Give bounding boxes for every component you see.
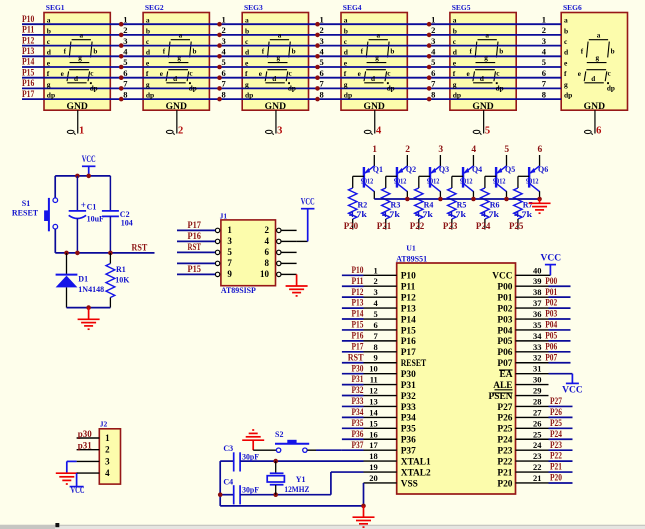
svg-text:e: e [358,70,361,78]
svg-text:P32: P32 [352,385,364,395]
svg-text:24: 24 [533,440,542,450]
svg-text:2: 2 [123,25,127,35]
svg-text:8: 8 [542,89,546,99]
svg-text:7: 7 [542,79,547,89]
svg-text:b: b [390,48,394,56]
svg-text:g: g [564,80,568,89]
svg-text:3: 3 [542,36,546,46]
svg-text:16: 16 [369,429,378,439]
svg-text:2: 2 [105,445,110,455]
svg-text:4.7k: 4.7k [349,210,367,219]
svg-text:dp: dp [344,91,352,100]
svg-text:1: 1 [374,265,378,275]
svg-text:C1: C1 [87,203,97,212]
svg-text:18: 18 [369,451,378,461]
svg-text:C2: C2 [120,210,130,219]
svg-text:g: g [596,54,600,62]
svg-text:2: 2 [374,276,378,286]
svg-text:8: 8 [123,89,127,99]
svg-text:Q6: Q6 [538,165,548,174]
svg-text:P33: P33 [401,403,416,413]
svg-text:d: d [591,75,595,83]
svg-text:9012: 9012 [427,176,440,185]
svg-text:S2: S2 [275,430,283,439]
svg-text:EA: EA [499,370,512,380]
svg-text:e: e [61,70,64,78]
svg-text:SEG2: SEG2 [145,3,164,12]
svg-text:P21: P21 [550,462,562,472]
svg-text:R6: R6 [490,201,500,210]
svg-text:a: a [344,16,348,25]
svg-text:RST: RST [188,242,202,252]
svg-text:g: g [78,54,82,62]
svg-text:4: 4 [374,298,379,308]
svg-text:g: g [484,54,488,62]
svg-text:R4: R4 [424,201,434,210]
svg-text:4.7k: 4.7k [481,210,499,219]
svg-text:U1: U1 [406,243,416,252]
svg-text:10: 10 [369,364,378,374]
svg-text:P30: P30 [401,370,416,380]
svg-text:b: b [564,26,568,35]
svg-text:P24: P24 [497,436,512,446]
svg-text:P15: P15 [352,320,364,330]
svg-text:P02: P02 [497,304,512,314]
svg-text:1: 1 [123,14,127,24]
svg-text:P04: P04 [497,326,512,336]
svg-text:38: 38 [533,287,542,297]
svg-text:1: 1 [79,126,84,137]
svg-text:4: 4 [376,126,382,137]
svg-text:9012: 9012 [361,176,374,185]
svg-text:12: 12 [369,386,378,396]
svg-text:P22: P22 [550,451,562,461]
svg-text:P23: P23 [550,440,562,450]
svg-text:VCC: VCC [301,197,315,207]
svg-text:d: d [74,75,78,83]
svg-text:P20: P20 [344,221,359,231]
svg-text:P11: P11 [22,26,35,36]
svg-text:1: 1 [542,14,546,24]
svg-text:g: g [277,54,281,62]
svg-text:4: 4 [431,47,436,57]
svg-text:6: 6 [123,68,127,78]
svg-text:3: 3 [277,126,282,137]
svg-text:P11: P11 [352,276,364,286]
svg-text:Y1: Y1 [296,475,306,484]
svg-text:P21: P21 [377,221,392,231]
svg-text:6: 6 [542,68,546,78]
svg-text:P17: P17 [22,90,34,100]
svg-text:P35: P35 [401,425,416,435]
svg-text:VCC: VCC [71,485,85,495]
svg-text:P26: P26 [497,414,512,424]
svg-text:2: 2 [265,225,270,235]
svg-text:30pF: 30pF [242,486,259,495]
svg-text:27: 27 [533,407,542,417]
svg-text:20: 20 [369,473,378,483]
svg-text:AT89S51: AT89S51 [396,255,427,264]
svg-text:XTAL1: XTAL1 [401,457,431,467]
svg-text:P26: P26 [550,407,562,417]
svg-text:3: 3 [222,36,226,46]
svg-text:b: b [453,26,457,35]
svg-text:26: 26 [533,418,542,428]
svg-text:33: 33 [533,342,542,352]
svg-text:3: 3 [374,287,378,297]
svg-text:P01: P01 [545,287,557,297]
svg-text:32: 32 [533,353,542,363]
svg-text:P30: P30 [352,363,364,373]
svg-text:g: g [245,80,249,89]
svg-text:a: a [146,16,150,25]
svg-text:P25: P25 [497,425,512,435]
svg-text:31: 31 [533,364,542,374]
svg-text:12MHZ: 12MHZ [284,485,309,494]
svg-text:8: 8 [222,89,226,99]
svg-text:4: 4 [105,468,110,478]
svg-text:5: 5 [227,247,232,257]
svg-text:34: 34 [533,331,542,341]
svg-text:39: 39 [533,276,542,286]
svg-text:P17: P17 [352,341,364,351]
svg-text:P37: P37 [401,446,416,456]
svg-text:1: 1 [227,225,232,235]
svg-text:7: 7 [227,258,232,268]
svg-text:P36: P36 [352,429,364,439]
svg-text:p31: p31 [78,441,93,451]
svg-text:4: 4 [123,47,128,57]
svg-text:9012: 9012 [493,176,506,185]
svg-text:14: 14 [369,407,378,417]
svg-text:RST: RST [348,352,364,362]
svg-text:C3: C3 [223,444,233,453]
svg-text:VCC: VCC [562,386,583,396]
svg-text:D1: D1 [78,275,88,284]
svg-text:P24: P24 [476,221,491,231]
svg-text:p30: p30 [78,429,93,439]
svg-text:5: 5 [504,145,509,155]
svg-text:1: 1 [222,14,226,24]
svg-text:dp: dp [387,84,395,92]
svg-text:a: a [377,32,381,40]
svg-text:P16: P16 [352,330,364,340]
svg-text:4.7k: 4.7k [448,210,466,219]
svg-text:5: 5 [485,126,490,137]
svg-text:9: 9 [374,353,378,363]
svg-text:P10: P10 [22,15,34,25]
svg-text:P05: P05 [545,330,557,340]
svg-text:P15: P15 [22,68,34,78]
svg-text:10: 10 [260,269,270,279]
svg-text:4: 4 [471,145,476,155]
svg-text:g: g [344,80,348,89]
svg-text:AT89SISP: AT89SISP [221,286,256,295]
svg-text:R2: R2 [358,201,368,210]
svg-text:g: g [177,54,181,62]
svg-text:36: 36 [533,309,542,319]
svg-text:a: a [485,32,489,40]
svg-text:dp: dp [564,91,572,100]
svg-text:P21: P21 [497,468,512,478]
svg-text:R7: R7 [523,201,533,210]
svg-text:b: b [146,26,150,35]
svg-text:Q4: Q4 [472,165,482,174]
svg-text:P23: P23 [497,446,512,456]
svg-text:P14: P14 [401,315,416,325]
svg-text:5: 5 [542,57,546,67]
svg-text:30pF: 30pF [242,452,259,461]
svg-text:b: b [292,48,296,56]
svg-text:S1: S1 [22,199,30,208]
svg-text:Q3: Q3 [439,165,449,174]
svg-text:d: d [371,75,375,83]
svg-text:d: d [272,75,276,83]
svg-text:8: 8 [265,258,270,268]
svg-text:RESET: RESET [401,359,427,369]
svg-text:P24: P24 [550,429,562,439]
svg-text:P16: P16 [401,337,416,347]
svg-text:Q2: Q2 [406,165,416,174]
svg-text:8: 8 [320,89,324,99]
svg-text:9012: 9012 [394,176,407,185]
svg-text:P04: P04 [545,320,557,330]
svg-text:dp: dp [90,84,98,92]
svg-text:30: 30 [533,375,542,385]
svg-text:P10: P10 [352,265,364,275]
svg-text:4: 4 [542,47,547,57]
svg-text:37: 37 [533,298,542,308]
svg-text:P07: P07 [497,359,512,369]
svg-text:15: 15 [369,418,378,428]
svg-text:P13: P13 [401,304,416,314]
svg-text:SEG5: SEG5 [452,3,471,12]
svg-text:b: b [611,48,615,56]
svg-text:Q5: Q5 [505,165,515,174]
svg-text:28: 28 [533,396,542,406]
svg-text:9012: 9012 [460,176,473,185]
svg-text:2: 2 [222,25,226,35]
svg-text:5: 5 [222,57,226,67]
svg-text:dp: dp [607,84,615,92]
svg-text:P37: P37 [352,440,364,450]
svg-text:P22: P22 [410,221,425,231]
svg-text:3: 3 [431,36,435,46]
svg-text:P03: P03 [545,309,557,319]
svg-text:P33: P33 [352,396,364,406]
svg-text:1N4148: 1N4148 [78,285,104,294]
svg-text:40: 40 [533,265,542,275]
svg-text:P11: P11 [401,283,416,293]
svg-text:VCC: VCC [82,154,96,164]
svg-text:P23: P23 [443,221,458,231]
svg-text:dp: dp [146,91,154,100]
svg-text:10uF: 10uF [87,215,104,224]
svg-text:dp: dp [47,91,55,100]
svg-text:a: a [179,32,183,40]
svg-text:VCC: VCC [492,272,513,282]
svg-text:17: 17 [369,440,378,450]
svg-text:P15: P15 [188,264,202,274]
svg-text:6: 6 [222,68,226,78]
svg-text:b: b [344,26,348,35]
svg-text:P32: P32 [401,392,416,402]
svg-text:a: a [278,32,282,40]
svg-text:XTAL2: XTAL2 [401,468,431,478]
svg-text:22: 22 [533,462,542,472]
svg-text:P35: P35 [352,418,364,428]
svg-text:5: 5 [123,57,127,67]
svg-text:a: a [564,16,568,25]
svg-text:a: a [597,32,601,40]
svg-text:1: 1 [372,145,377,155]
svg-text:e: e [160,70,163,78]
svg-text:b: b [47,26,51,35]
svg-text:P13: P13 [352,298,364,308]
svg-text:7: 7 [431,79,436,89]
svg-text:4: 4 [265,236,270,246]
svg-text:P02: P02 [545,298,557,308]
svg-text:+: + [81,200,86,210]
svg-text:P27: P27 [550,396,562,406]
svg-text:1: 1 [431,14,435,24]
svg-text:8: 8 [431,89,435,99]
svg-text:P20: P20 [550,473,562,483]
svg-text:P12: P12 [401,293,416,303]
svg-text:SEG1: SEG1 [46,3,65,12]
svg-text:b: b [93,48,97,56]
svg-text:R1: R1 [116,265,126,274]
svg-text:P03: P03 [497,315,512,325]
svg-text:P16: P16 [188,231,202,241]
svg-text:P25: P25 [509,221,524,231]
svg-text:SEG4: SEG4 [343,3,362,12]
svg-text:b: b [245,26,249,35]
svg-text:6: 6 [537,145,542,155]
svg-text:P00: P00 [545,276,557,286]
svg-text:13: 13 [369,396,378,406]
svg-text:VCC: VCC [541,253,562,263]
svg-text:P31: P31 [352,374,364,384]
svg-text:R5: R5 [457,201,467,210]
svg-text:P01: P01 [497,293,512,303]
svg-text:6: 6 [320,68,324,78]
svg-text:J2: J2 [100,419,108,428]
svg-text:d: d [173,75,177,83]
svg-text:b: b [499,48,503,56]
svg-text:P34: P34 [401,414,416,424]
svg-text:25: 25 [533,429,542,439]
svg-text:a: a [453,16,457,25]
svg-text:3: 3 [227,236,232,246]
svg-text:R3: R3 [391,201,401,210]
svg-text:1: 1 [320,14,324,24]
svg-text:6: 6 [431,68,435,78]
svg-text:dp: dp [189,84,197,92]
svg-text:3: 3 [105,456,110,466]
svg-text:C4: C4 [223,477,233,486]
svg-text:3: 3 [438,145,443,155]
svg-text:6: 6 [596,126,601,137]
svg-text:P22: P22 [497,457,512,467]
svg-text:P00: P00 [497,283,512,293]
svg-text:8: 8 [374,342,378,352]
svg-text:9012: 9012 [526,176,539,185]
svg-text:a: a [47,16,51,25]
svg-text:35: 35 [533,320,542,330]
svg-text:5: 5 [431,57,435,67]
svg-text:P17: P17 [401,348,416,358]
svg-text:g: g [47,80,51,89]
svg-text:SEG6: SEG6 [563,3,582,12]
svg-text:P17: P17 [188,220,202,230]
svg-text:6: 6 [265,247,270,257]
svg-text:P07: P07 [545,352,557,362]
svg-text:P13: P13 [22,47,34,57]
svg-text:dp: dp [453,91,461,100]
svg-text:e: e [259,70,262,78]
svg-text:23: 23 [533,451,542,461]
svg-text:9: 9 [227,269,232,279]
svg-text:7: 7 [123,79,128,89]
svg-text:J1: J1 [220,211,228,220]
svg-text:dp: dp [245,91,253,100]
svg-text:2: 2 [542,25,546,35]
svg-text:P15: P15 [401,326,416,336]
svg-text:dp: dp [288,84,296,92]
svg-text:P16: P16 [22,79,34,89]
svg-text:4.7k: 4.7k [514,210,532,219]
svg-text:2: 2 [178,126,183,137]
svg-text:104: 104 [121,219,133,228]
svg-text:dp: dp [496,84,504,92]
svg-text:P12: P12 [22,36,34,46]
svg-text:19: 19 [369,462,378,472]
svg-text:29: 29 [533,386,542,396]
svg-text:a: a [80,32,84,40]
svg-text:5: 5 [320,57,324,67]
svg-text:P25: P25 [550,418,562,428]
svg-text:b: b [193,48,197,56]
svg-text:SEG3: SEG3 [244,3,263,12]
svg-text:21: 21 [533,473,542,483]
svg-text:P12: P12 [352,287,364,297]
svg-text:P20: P20 [497,479,512,489]
svg-text:P34: P34 [352,407,364,417]
svg-text:g: g [453,80,457,89]
svg-text:3: 3 [320,36,324,46]
svg-text:P05: P05 [497,337,512,347]
svg-text:2: 2 [320,25,324,35]
svg-text:7: 7 [374,331,379,341]
svg-text:1: 1 [105,433,110,443]
svg-text:10K: 10K [115,276,130,285]
svg-text:P14: P14 [352,309,364,319]
svg-text:5: 5 [374,309,378,319]
svg-text:RST: RST [132,244,148,254]
svg-text:3: 3 [123,36,127,46]
svg-text:2: 2 [431,25,435,35]
svg-text:2: 2 [405,145,410,155]
svg-text:P10: P10 [401,272,416,282]
svg-text:P36: P36 [401,436,416,446]
svg-text:P06: P06 [545,341,557,351]
svg-text:g: g [375,54,379,62]
svg-text:e: e [578,70,581,78]
svg-text:11: 11 [370,375,378,385]
svg-text:P27: P27 [497,403,512,413]
svg-text:Q1: Q1 [373,165,383,174]
